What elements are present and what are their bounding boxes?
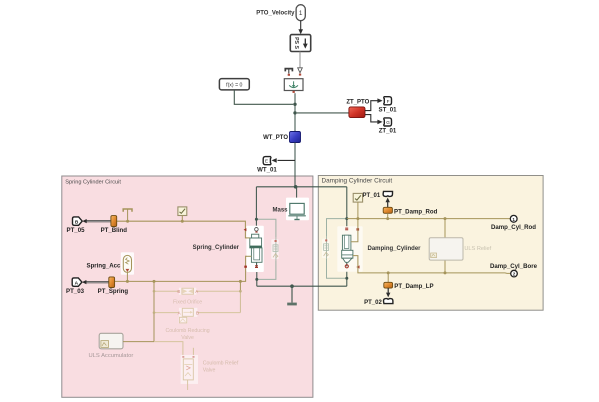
svg-text:Coulomb Reducing: Coulomb Reducing	[166, 328, 210, 334]
region Spring Cylinder Circuit	[62, 176, 313, 397]
svg-text:Damping_Cylinder: Damping_Cylinder	[368, 246, 422, 252]
faded relief stub right	[192, 348, 194, 355]
cylinder Damping_Cylinder	[337, 226, 421, 272]
node relief junction bottom	[444, 271, 447, 274]
svg-text:B: B	[177, 289, 180, 294]
outport A PT_03	[66, 278, 85, 295]
wire ZT_PTO to port G	[365, 115, 383, 125]
velocity source block	[284, 79, 303, 93]
wire PT_Damp_Rod to PT_01	[386, 198, 390, 208]
svg-text:Mass: Mass	[272, 208, 288, 214]
sensor PT_Damp_LP	[384, 273, 434, 290]
svg-text:Valve: Valve	[181, 335, 194, 341]
svg-text:1: 1	[512, 217, 515, 222]
outport PT_02	[364, 299, 393, 306]
wire to spring cylinder rod	[255, 187, 257, 229]
svg-text:WT_PTO: WT_PTO	[263, 135, 288, 141]
svg-text:Damping Cylinder Circuit: Damping Cylinder Circuit	[322, 178, 393, 185]
svg-text:F: F	[387, 99, 390, 104]
wire PT_Damp_LP to PT_02	[386, 288, 390, 297]
wire WT_PTO down	[294, 143, 296, 187]
svg-text:ULS Relief: ULS Relief	[464, 246, 491, 252]
wire PT_Spring to PT_03	[82, 280, 109, 284]
svg-text:PTO_Velocity: PTO_Velocity	[256, 10, 295, 16]
converter PS-S (Simulink-PS)	[290, 35, 310, 52]
svg-text:PT_03: PT_03	[66, 288, 85, 295]
wire accumulator to network	[123, 341, 154, 343]
svg-text:f(x) = 0: f(x) = 0	[226, 83, 242, 89]
sensor PT_Blind	[101, 216, 128, 234]
wire WT_PTO to port E	[272, 158, 296, 163]
svg-text:2: 2	[513, 272, 516, 277]
svg-text:PT_01: PT_01	[363, 193, 381, 199]
svg-text:PT_Blind: PT_Blind	[101, 227, 128, 234]
friction block (spring side)	[271, 238, 278, 260]
accumulator ULS Accumulator	[89, 333, 134, 359]
wire solver to node	[234, 90, 293, 104]
block Mass	[272, 198, 309, 221]
svg-text:A: A	[75, 280, 79, 286]
outport B PT_05	[67, 217, 86, 234]
hydraulic tank T symbol	[123, 209, 132, 221]
svg-text:G: G	[386, 120, 390, 125]
svg-text:PT_Damp_Rod: PT_Damp_Rod	[394, 208, 438, 215]
valve Fixed Orifice (faded)	[173, 288, 202, 306]
outport G ZT_01	[379, 118, 397, 135]
node sensor junction (damping)	[356, 217, 359, 220]
friction block (damping side)	[322, 237, 329, 259]
faded orifice wires	[154, 290, 179, 292]
svg-text:Spring_Acc: Spring_Acc	[87, 263, 121, 270]
mechanical ground	[287, 286, 297, 305]
spring-side friction branch bottom	[257, 260, 276, 279]
sensor PT_Spring	[98, 277, 129, 295]
spring cylinder case wire down	[256, 267, 258, 286]
svg-text:ST_01: ST_01	[379, 106, 398, 113]
outport E WT_01	[257, 157, 277, 174]
valve network right vertical (solid part)	[239, 281, 241, 291]
sensor block (spring)	[178, 207, 187, 221]
mechanical horizontal bus	[256, 186, 346, 188]
faded right vertical	[239, 291, 241, 312]
mechanical reference T (top)	[285, 69, 292, 76]
spring hydraulic top line	[117, 221, 250, 238]
svg-text:PS S: PS S	[293, 37, 299, 49]
node right valve junction	[239, 280, 242, 283]
faded reducing valve wires	[154, 312, 179, 314]
node acc junction	[126, 280, 129, 283]
valve network left vertical	[153, 281, 155, 341]
svg-text:1: 1	[299, 10, 303, 17]
svg-text:E: E	[265, 159, 268, 164]
svg-text:WT_01: WT_01	[257, 166, 277, 173]
wire node to ZT_PTO	[297, 112, 349, 114]
accumulator Spring_Acc	[87, 252, 134, 281]
svg-text:Spring Cylinder Circuit: Spring Cylinder Circuit	[65, 180, 121, 186]
sensor block (damping)	[353, 193, 362, 218]
svg-text:Valve: Valve	[203, 368, 216, 374]
port Damp_Cyl_Bore	[490, 263, 538, 277]
wire cylinder A port to bottom line	[353, 256, 511, 274]
wire to damping cylinder rod	[346, 187, 348, 228]
ground node junction	[290, 284, 294, 288]
solver f(x)=0	[219, 79, 249, 90]
wire ZT_PTO to port F	[365, 98, 383, 110]
svg-text:Coulomb Relief: Coulomb Relief	[203, 361, 239, 367]
svg-text:PT_05: PT_05	[67, 227, 86, 234]
node T junction	[126, 220, 129, 223]
svg-text:Spring_Cylinder: Spring_Cylinder	[193, 245, 240, 251]
svg-text:ZT_PTO: ZT_PTO	[346, 100, 369, 106]
damping cylinder case wire	[346, 266, 348, 286]
outport PT_01	[363, 191, 393, 199]
svg-text:PT_Spring: PT_Spring	[98, 288, 129, 295]
valve Coulomb Reducing (faded)	[166, 308, 210, 341]
block ZT_PTO	[346, 100, 369, 118]
svg-text:PT_02: PT_02	[364, 300, 382, 306]
svg-text:Fixed Orifice: Fixed Orifice	[173, 300, 202, 306]
svg-text:Damp_Cyl_Rod: Damp_Cyl_Rod	[491, 224, 536, 231]
outport F ST_01	[379, 97, 398, 114]
main vertical mechanical wire	[294, 93, 296, 131]
svg-text:B: B	[196, 311, 199, 316]
faded relief connection left	[154, 342, 183, 356]
svg-text:B: B	[75, 219, 79, 225]
damping-side friction branch top	[327, 219, 347, 237]
region Damping Cylinder Circuit	[318, 176, 543, 311]
input port 1 PTO_Velocity	[256, 5, 305, 21]
svg-text:A: A	[178, 311, 181, 316]
svg-text:ULS Accumulator: ULS Accumulator	[89, 353, 134, 359]
wire converter to velocity source (hollow arrow)	[298, 52, 303, 76]
mechanical node junction	[294, 185, 298, 189]
svg-text:ZT_01: ZT_01	[379, 128, 397, 135]
valve ULS Relief	[429, 219, 491, 273]
node junction ZT	[293, 111, 296, 114]
node PT junction (damping)	[386, 217, 389, 220]
wire to mass	[296, 187, 298, 203]
svg-text:Damp_Cyl_Bore: Damp_Cyl_Bore	[490, 263, 538, 270]
wire PT_Blind to PT_05	[82, 219, 111, 223]
damping-side friction branch bottom	[327, 259, 347, 278]
sensor PT_Damp_Rod	[383, 207, 437, 218]
block WT_PTO	[263, 132, 300, 143]
wire stub into spring cylinder B	[246, 255, 252, 257]
node left valve junction	[153, 280, 156, 283]
wire stub into spring cylinder A	[245, 237, 249, 239]
wire port1 to converter	[298, 21, 303, 35]
spring-side friction branch top	[256, 219, 276, 238]
node relief junction top	[444, 217, 447, 220]
wire cylinder D port	[351, 219, 358, 242]
node junction f(x)	[293, 103, 296, 106]
port Damp_Cyl_Rod	[491, 215, 536, 231]
mechanical bottom bus	[257, 285, 347, 287]
svg-text:PT_Damp_LP: PT_Damp_LP	[394, 283, 433, 290]
node PT_LP junction	[387, 271, 390, 274]
valve Coulomb Relief (faded)	[181, 355, 239, 390]
spring hydraulic bottom line	[115, 256, 252, 281]
damping hydraulic top line	[347, 218, 511, 220]
node sensor junction	[181, 220, 184, 223]
svg-text:A: A	[195, 289, 198, 294]
cylinder Spring_Cylinder	[193, 226, 264, 272]
